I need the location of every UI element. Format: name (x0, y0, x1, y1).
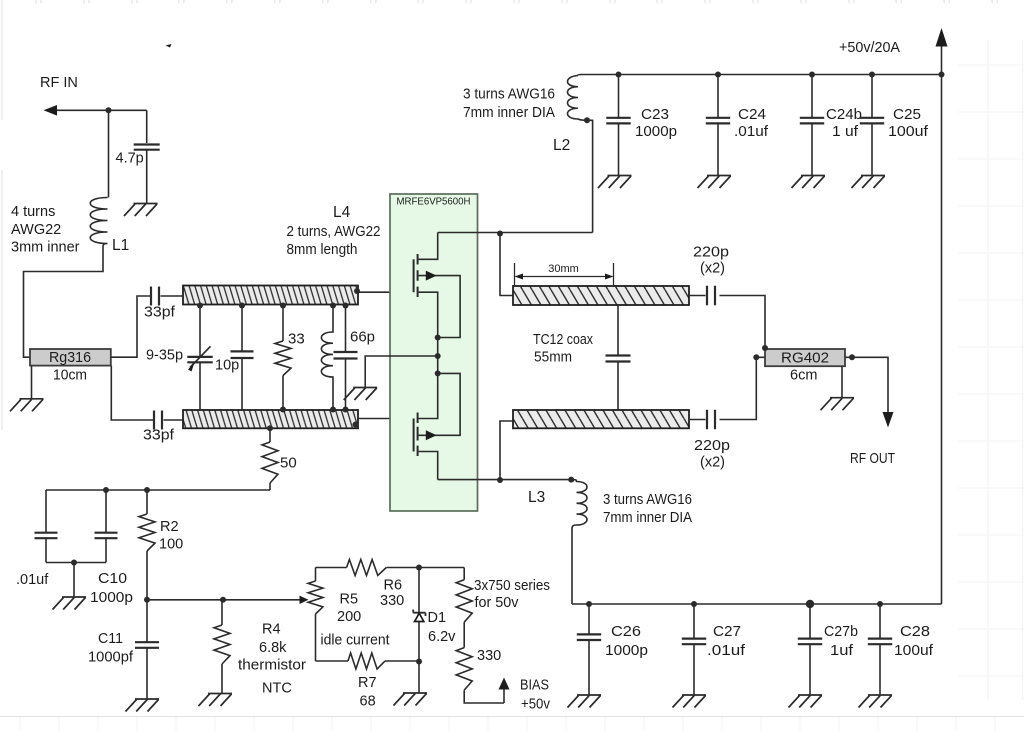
svg-text:4.7p: 4.7p (116, 151, 144, 167)
label .01uf (16, 572, 49, 588)
wire TC12 bottom bar to drain (500, 421, 513, 480)
svg-text:C11: C11 (98, 631, 123, 647)
svg-text:L4: L4 (333, 204, 351, 221)
inductor L2 (568, 76, 593, 233)
label C25 100uf (888, 107, 929, 140)
wire top bar to upper gate (358, 291, 414, 293)
svg-text:R4: R4 (262, 622, 281, 638)
svg-text:Rg316: Rg316 (49, 349, 91, 366)
svg-text:1000p: 1000p (605, 643, 648, 659)
label R4 6.8k thermistor NTC (238, 622, 306, 697)
svg-text:33pf: 33pf (143, 428, 175, 444)
label L2 (553, 137, 570, 154)
svg-text:10cm: 10cm (53, 368, 87, 384)
dimension 30mm (515, 263, 614, 287)
svg-text:1 uf: 1 uf (832, 124, 859, 140)
wire L1 to Rg316 (24, 246, 104, 357)
label R7 68 (358, 675, 377, 710)
svg-text:220p: 220p (693, 245, 729, 261)
svg-text:100uf: 100uf (894, 643, 934, 659)
ground under C25 (852, 176, 886, 189)
wire D1 to ground (418, 662, 420, 694)
capacitor 33pf bottom (154, 411, 183, 430)
wire junction to L1 (108, 110, 110, 197)
label R6 330 (380, 578, 404, 610)
capacitor C28 (868, 601, 892, 695)
svg-text:330: 330 (380, 593, 404, 609)
svg-text:33pf: 33pf (144, 305, 176, 321)
label 4.7p (116, 151, 144, 167)
label L3 (528, 489, 545, 506)
svg-text:C24: C24 (738, 107, 766, 123)
wire drain branch to coax bar (500, 234, 513, 296)
label 33 (288, 331, 305, 348)
label 6cm (790, 368, 817, 384)
wire FET center column (435, 335, 441, 377)
ground under 4.7p (124, 204, 158, 217)
label +50v/20A (839, 40, 900, 56)
label 220p x2 top (693, 245, 729, 277)
label C24b 1 uf (826, 107, 862, 140)
ground under C28 (859, 695, 893, 708)
label 9-35p (146, 348, 183, 364)
resistor R7 (316, 653, 420, 669)
svg-text:7mm inner DIA: 7mm inner DIA (603, 510, 692, 526)
capacitor C11 (135, 600, 159, 699)
capacitor C10 (95, 490, 118, 563)
wire upper drain (438, 232, 593, 234)
wire RF IN line (55, 109, 147, 111)
svg-text:8mm length: 8mm length (287, 242, 358, 258)
capacitor C23 (606, 72, 630, 176)
wire RG402 ground stub (841, 366, 843, 398)
svg-text:200: 200 (337, 609, 361, 625)
label L1 (112, 237, 129, 254)
svg-text:7mm inner DIA: 7mm inner DIA (463, 105, 555, 121)
svg-text:L1: L1 (112, 237, 129, 254)
label C23 1000p (635, 107, 677, 140)
label L4 (333, 204, 351, 221)
inductor L3 (571, 480, 587, 604)
svg-text:C24b: C24b (826, 107, 862, 123)
BIAS arrow (499, 678, 510, 704)
wire bottom bar to lower gate (359, 418, 414, 420)
capacitor C24 (706, 72, 730, 176)
svg-text:3 turns AWG16: 3 turns AWG16 (603, 492, 692, 508)
label RF OUT (850, 451, 895, 467)
svg-text:1000p: 1000p (635, 124, 677, 140)
label C26 1000p (605, 624, 648, 659)
label C10 1000p (90, 571, 133, 606)
wire RF OUT (845, 357, 894, 427)
svg-text:+50v: +50v (521, 697, 551, 713)
node L3 top (568, 477, 574, 483)
wire right supply rail (939, 72, 945, 605)
label C28 100uf (894, 624, 934, 659)
svg-text:RF IN: RF IN (40, 75, 78, 91)
capacitor 66p (334, 303, 358, 413)
inductor input shunt (321, 303, 336, 413)
svg-text:.01uf: .01uf (734, 124, 769, 140)
coax Rg316 (30, 349, 111, 366)
svg-text:C28: C28 (900, 624, 930, 640)
svg-text:idle current: idle current (321, 633, 390, 649)
label BIAS +50v (520, 678, 551, 713)
ground under R4 (199, 694, 233, 707)
svg-text:RG402: RG402 (781, 350, 829, 367)
label 10cm (53, 368, 87, 384)
svg-text:100uf: 100uf (888, 124, 929, 140)
svg-text:55mm: 55mm (534, 350, 572, 366)
svg-text:6.8k: 6.8k (259, 640, 287, 656)
svg-text:(x2): (x2) (700, 261, 725, 277)
potentiometer R5 (308, 568, 323, 662)
microstrip bar TC12 bottom (513, 410, 689, 428)
svg-text:6cm: 6cm (790, 368, 817, 384)
inductor L1 (90, 198, 107, 247)
faint page edge artifacts (36, 0, 997, 3)
svg-text:R6: R6 (384, 578, 403, 594)
capacitor C26 (577, 601, 601, 695)
stray mark (166, 44, 172, 48)
capacitor C27 (682, 601, 706, 695)
svg-text:68: 68 (360, 694, 376, 710)
label R5 200 idle current (321, 592, 390, 649)
svg-text:9-35p: 9-35p (146, 348, 183, 364)
capacitor C27b (798, 600, 822, 695)
svg-text:66p: 66p (350, 329, 375, 346)
transistor Q2 lower FET (414, 373, 461, 479)
label C24 .01uf (734, 107, 769, 140)
microstrip bar input bottom (183, 410, 358, 428)
svg-text:RF OUT: RF OUT (850, 451, 895, 467)
label 10p (215, 358, 239, 374)
resistor 50 (262, 425, 278, 490)
svg-text:for 50v: for 50v (475, 595, 520, 611)
label 3 turns AWG16 7mm inner DIA bottom (603, 492, 692, 526)
label 330 bias (477, 648, 501, 664)
svg-text:10p: 10p (215, 358, 239, 374)
label 4 turns AWG22 3mm inner (11, 204, 80, 256)
ground under C27b (789, 695, 823, 708)
capacitor 10p (231, 303, 254, 411)
wire bias node1 (46, 487, 270, 493)
svg-text:3x750 series: 3x750 series (474, 578, 550, 594)
label R2 100 (159, 519, 183, 553)
svg-text:1000pf: 1000pf (88, 650, 134, 666)
ground under C27 (673, 695, 707, 708)
ground under C23 (598, 176, 632, 189)
resistor R4 thermistor (214, 600, 230, 694)
op transistor package MRFE6VP5600H (390, 194, 478, 511)
svg-text:R5: R5 (340, 592, 359, 608)
node RF input junction (106, 107, 112, 113)
svg-text:C23: C23 (641, 107, 669, 123)
label C27b 1uf (824, 624, 858, 659)
ground under C26 (568, 695, 602, 708)
capacitor C24b (800, 72, 824, 176)
svg-text:C27: C27 (713, 624, 741, 640)
svg-text:1000p: 1000p (90, 590, 133, 606)
capacitor 220p top (689, 286, 765, 348)
capacitor 220p bottom (689, 357, 765, 429)
svg-text:AWG22: AWG22 (11, 222, 61, 238)
svg-text:30mm: 30mm (548, 263, 579, 275)
ground under Rg316 (10, 399, 44, 412)
ground under RG402 (821, 398, 855, 411)
diode D1 zener (413, 568, 425, 665)
power arrow +50v/20A (936, 28, 948, 75)
capacitor C25 (860, 72, 884, 176)
transistor Q1 upper FET (414, 233, 461, 338)
svg-text:3 turns AWG16: 3 turns AWG16 (463, 86, 555, 102)
microstrip bar TC12 top (513, 286, 689, 305)
wire lower drain (438, 477, 572, 483)
capacitor 33pf top (151, 287, 183, 306)
svg-text:220p: 220p (694, 438, 730, 454)
svg-text:C25: C25 (893, 107, 921, 123)
wire Rg316 to top 33pf (111, 296, 150, 357)
ground under C24 (698, 176, 732, 189)
label 33pf bottom (143, 428, 175, 444)
label C27 .01uf (707, 624, 746, 659)
ground under C11 (126, 699, 160, 712)
svg-text:R2: R2 (160, 519, 179, 535)
wire cap pair to ground (46, 560, 106, 598)
label 33pf top (144, 305, 176, 321)
svg-text:50: 50 (280, 455, 297, 472)
svg-text:1uf: 1uf (830, 643, 854, 659)
wire Rg316 ground stub (31, 366, 33, 399)
RF IN arrowhead (44, 105, 58, 116)
svg-text:.01uf: .01uf (16, 572, 49, 588)
wire Rg316 to bottom 33pf (111, 366, 153, 420)
wire +50v top rail (578, 75, 942, 76)
label 2 turns AWG22 8mm length (287, 224, 381, 258)
svg-text:R7: R7 (358, 675, 377, 691)
svg-text:L3: L3 (528, 489, 545, 506)
svg-text:TC12 coax: TC12 coax (533, 332, 594, 348)
svg-text:C27b: C27b (824, 624, 858, 640)
resistor R2 (139, 490, 155, 600)
node bottom bar right (353, 422, 359, 428)
svg-text:thermistor: thermistor (238, 658, 306, 674)
svg-text:C26: C26 (611, 624, 641, 640)
capacitor TC12 middle shunt (606, 305, 631, 410)
resistor 330 bias (456, 648, 504, 703)
node RG402 right (849, 354, 855, 360)
svg-text:BIAS: BIAS (520, 678, 549, 694)
label 66p (350, 329, 375, 346)
wire center tap to ground (365, 356, 438, 388)
capacitor 4.7p (134, 110, 160, 203)
microstrip bar input top (183, 286, 358, 305)
label 3x750 series for 50v (474, 578, 550, 611)
label TC12 coax 55mm (533, 332, 594, 366)
ground center tap (344, 388, 378, 401)
wire bias node2 arrow to R5 (144, 596, 309, 604)
svg-text:NTC: NTC (262, 681, 292, 697)
svg-text:33: 33 (288, 331, 305, 348)
svg-text:3mm inner: 3mm inner (11, 240, 80, 256)
svg-text:L2: L2 (553, 137, 570, 154)
svg-text:D1: D1 (428, 610, 447, 626)
wire bottom supply rail (572, 603, 942, 605)
label D1 6.2v (428, 610, 457, 645)
label 220p x2 bottom (694, 438, 730, 471)
resistor 33 (275, 303, 291, 413)
node center tap (435, 353, 441, 359)
svg-text:(x2): (x2) (700, 455, 725, 471)
svg-text:C10: C10 (98, 571, 127, 587)
node drain branch (497, 231, 503, 237)
node RG402 left terminals (753, 345, 768, 360)
svg-text:MRFE6VP5600H: MRFE6VP5600H (397, 196, 471, 208)
svg-text:+50v/20A: +50v/20A (839, 40, 900, 56)
node top bar right (354, 288, 360, 294)
wire bias top node (416, 565, 464, 571)
coax RG402 (765, 349, 845, 367)
ground under C24b (792, 176, 826, 189)
capacitor .01uf (35, 490, 58, 563)
label 50 (280, 455, 297, 472)
ground under D1 (394, 693, 428, 706)
svg-text:100: 100 (159, 537, 183, 553)
ground under C10 (53, 597, 87, 610)
svg-text:330: 330 (477, 648, 501, 664)
resistor R6 (316, 560, 420, 576)
resistor 3x750 series (456, 568, 472, 648)
svg-text:4 turns: 4 turns (11, 204, 55, 220)
svg-text:2 turns, AWG22: 2 turns, AWG22 (287, 224, 381, 240)
label C11 1000pf (88, 631, 134, 666)
variable capacitor 9-35p (187, 303, 212, 411)
svg-text:6.2v: 6.2v (428, 629, 456, 645)
label 3 turns AWG16 7mm inner DIA top (463, 86, 555, 121)
label RF IN (40, 75, 78, 91)
svg-text:.01uf: .01uf (707, 643, 746, 659)
